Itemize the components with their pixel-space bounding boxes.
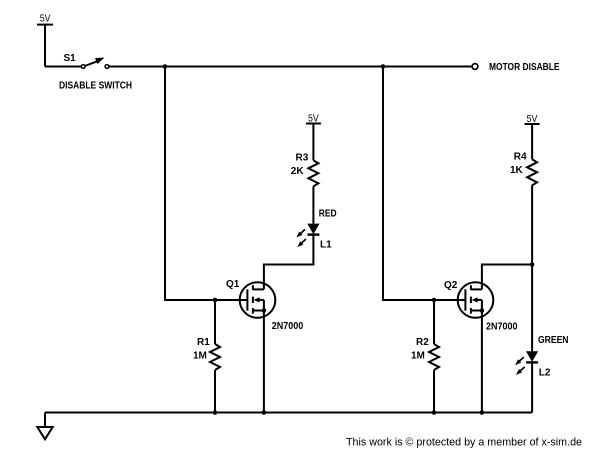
svg-text:1K: 1K bbox=[510, 165, 524, 176]
wire Q1 gate column bbox=[165, 67, 246, 301]
wire Q2 gate column bbox=[383, 67, 464, 301]
svg-text:5V: 5V bbox=[308, 113, 319, 124]
svg-text:2N7000: 2N7000 bbox=[272, 321, 304, 332]
junction ground rail / R2 bbox=[432, 410, 437, 415]
svg-text:S1: S1 bbox=[64, 53, 77, 64]
svg-text:Q1: Q1 bbox=[226, 279, 240, 290]
power 5V supply (R3 branch) bbox=[306, 113, 321, 124]
svg-text:5V: 5V bbox=[40, 14, 51, 25]
wire R1 top lead bbox=[214, 300, 216, 344]
wire R2 bottom lead bbox=[433, 370, 435, 413]
wire 5V to R3 bbox=[312, 124, 314, 161]
wire Q1 source to ground rail bbox=[263, 311, 265, 413]
wire R4 to drain junction bbox=[531, 185, 533, 264]
resistor R1 bbox=[197, 337, 220, 370]
resistor R2 bbox=[416, 337, 439, 370]
junction top rail / Q2 gate column bbox=[381, 64, 386, 69]
junction ground rail / R1 bbox=[213, 410, 218, 415]
junction R4 column / Q2 drain bbox=[530, 262, 535, 267]
svg-text:1M: 1M bbox=[411, 351, 425, 362]
svg-text:L1: L1 bbox=[320, 240, 332, 251]
wire top rail bbox=[109, 66, 472, 68]
wire switch feed bbox=[45, 66, 81, 68]
resistor R3 bbox=[296, 152, 319, 186]
LED L1 bbox=[295, 224, 332, 251]
svg-text:R4: R4 bbox=[514, 152, 527, 163]
wire L2 to ground rail bbox=[531, 362, 533, 412]
ground bbox=[37, 413, 52, 440]
junction gate wire / R2 bbox=[432, 298, 437, 303]
node MOTOR DISABLE pin bbox=[472, 62, 560, 73]
junction top rail / Q1 gate column bbox=[163, 64, 168, 69]
svg-text:This work is © protected by a: This work is © protected by a member of … bbox=[346, 437, 582, 449]
power 5V supply (left) bbox=[37, 14, 53, 25]
svg-text:R1: R1 bbox=[197, 337, 210, 348]
svg-text:RED: RED bbox=[319, 209, 337, 220]
transistor Q2 2N7000 bbox=[444, 280, 493, 318]
svg-text:GREEN: GREEN bbox=[538, 335, 569, 346]
svg-text:5V: 5V bbox=[527, 114, 538, 125]
svg-text:MOTOR DISABLE: MOTOR DISABLE bbox=[489, 62, 560, 73]
junction ground rail / Q2 source bbox=[480, 410, 485, 415]
svg-text:R3: R3 bbox=[296, 152, 309, 163]
junction gate wire / R1 bbox=[213, 298, 218, 303]
wire R2 top lead bbox=[433, 300, 435, 344]
resistor R4 bbox=[514, 152, 537, 186]
wire Q2 source to ground rail bbox=[481, 311, 483, 413]
wire 5V to switch bbox=[44, 25, 46, 67]
power 5V supply (R4 branch) bbox=[525, 114, 540, 125]
wire R3 to LED L1 bbox=[312, 186, 314, 223]
wire R1 bottom lead bbox=[214, 370, 216, 413]
svg-text:1M: 1M bbox=[193, 351, 207, 362]
svg-text:L2: L2 bbox=[539, 368, 551, 379]
wire drain junction to LED L2 bbox=[531, 265, 533, 352]
wire drain connector Q2 bbox=[482, 265, 532, 290]
switch S1 bbox=[64, 53, 109, 68]
wire ground rail bbox=[45, 412, 532, 414]
svg-text:R2: R2 bbox=[416, 337, 429, 348]
transistor Q1 2N7000 bbox=[226, 279, 275, 318]
svg-text:2N7000: 2N7000 bbox=[486, 322, 518, 333]
svg-text:2K: 2K bbox=[291, 166, 305, 177]
wire LED L1 to drain corner bbox=[264, 235, 314, 290]
svg-text:DISABLE SWITCH: DISABLE SWITCH bbox=[59, 81, 132, 92]
wire 5V to R4 bbox=[531, 124, 533, 159]
junction ground rail / Q1 source bbox=[262, 410, 267, 415]
svg-text:Q2: Q2 bbox=[444, 280, 458, 291]
LED L2 bbox=[514, 351, 551, 378]
